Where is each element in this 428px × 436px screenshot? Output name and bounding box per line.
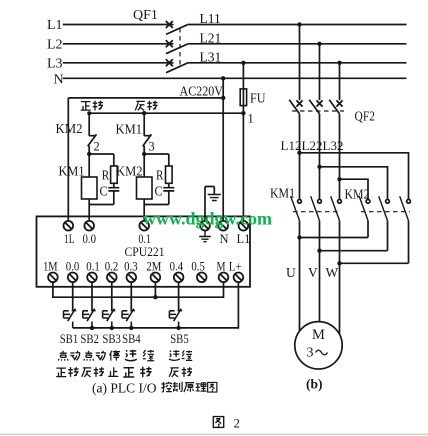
pushbutton SB2 <box>83 309 96 328</box>
contact KM1 NC interlock <box>116 113 155 154</box>
svg-text:V: V <box>308 265 318 280</box>
svg-text:1: 1 <box>248 112 254 126</box>
wire branch1 to output 0.0 <box>88 205 90 222</box>
svg-text:AC220V: AC220V <box>180 84 224 99</box>
bottom terminal labels <box>43 260 242 274</box>
junction 2M bus <box>153 295 157 299</box>
wire common bus 1M-2M-M <box>53 282 224 297</box>
wire L2 <box>63 43 174 45</box>
terminal 1L <box>64 221 75 246</box>
svg-text:N: N <box>54 72 64 87</box>
wire L3 <box>63 62 174 64</box>
node U V W <box>286 265 339 280</box>
wire left rail <box>67 98 69 221</box>
terminal 1M <box>48 273 58 283</box>
svg-text:U: U <box>286 265 296 280</box>
resistor R snubber2 <box>144 154 172 184</box>
junction wire 1 <box>241 111 245 115</box>
svg-text:3: 3 <box>307 346 314 361</box>
svg-text:CPU221: CPU221 <box>125 244 165 259</box>
junction AC220V/N <box>221 96 225 100</box>
label AC220V <box>180 84 224 99</box>
junction branch1 <box>87 152 91 156</box>
wire crossover L32 to KM2 left <box>340 179 369 199</box>
terminal I0.1 <box>87 273 97 283</box>
wire AC220V N-side <box>68 97 223 99</box>
terminal I0.3 <box>127 273 137 283</box>
svg-text:SB3: SB3 <box>102 331 121 346</box>
label wire 1 <box>248 112 254 126</box>
terminal I0.5 <box>197 273 207 283</box>
labels jog/stop/run row <box>58 350 192 361</box>
svg-text:0.0: 0.0 <box>66 260 80 274</box>
svg-text:L3: L3 <box>47 56 63 71</box>
breaker QF1 <box>133 8 188 73</box>
svg-text:0.3: 0.3 <box>124 260 138 274</box>
svg-text:C: C <box>155 185 163 200</box>
junction on N <box>221 76 225 80</box>
ground symbol PE <box>205 187 221 222</box>
junction U <box>297 235 301 239</box>
labels fwd/rev row <box>56 367 192 378</box>
junction L32 <box>337 177 341 181</box>
svg-text:SB2: SB2 <box>80 331 99 346</box>
svg-text:M: M <box>312 327 325 343</box>
junction on L31 fuse tap <box>241 61 245 65</box>
junction V <box>317 249 321 253</box>
svg-text:SB1: SB1 <box>60 331 78 346</box>
wire N vertical to PLC <box>222 78 224 221</box>
svg-text:(a) PLC I/O: (a) PLC I/O <box>92 381 157 396</box>
svg-text:1L: 1L <box>64 232 75 246</box>
terminal L1 <box>237 221 251 246</box>
terminal 0.0 out <box>83 221 97 246</box>
svg-text:KM1: KM1 <box>116 123 143 138</box>
fuse FU <box>240 63 265 107</box>
svg-text:2: 2 <box>234 416 241 431</box>
terminal I0.2 <box>107 273 117 283</box>
svg-text:(b): (b) <box>306 377 323 392</box>
wire N <box>63 77 407 79</box>
pushbutton SB3 <box>103 309 116 328</box>
junction on L31 <box>337 61 341 65</box>
junction branch2 <box>142 152 146 156</box>
svg-text:L1: L1 <box>237 232 251 246</box>
terminal I0.4 <box>174 273 184 283</box>
terminal M <box>219 273 229 283</box>
svg-text:0.0: 0.0 <box>83 232 97 246</box>
node L2 <box>47 37 63 52</box>
wire L11 <box>188 24 407 26</box>
svg-text:www.dgdgw.com: www.dgdgw.com <box>143 209 272 229</box>
capacitor C snubber1 <box>89 183 119 204</box>
junction on L11 <box>297 22 301 26</box>
wire QF2 to KM1 contacts <box>300 114 340 200</box>
pushbutton SB1 <box>64 309 77 328</box>
terminal N <box>218 221 228 246</box>
wire L+ to button bus <box>73 282 239 328</box>
PLC CPU221 box <box>37 216 251 286</box>
wire L21 <box>188 43 407 45</box>
wire KM2 right to W <box>340 221 409 264</box>
junction buttons bus <box>90 326 94 330</box>
svg-text:FU: FU <box>250 92 266 107</box>
svg-text:N: N <box>220 232 229 246</box>
resistor R snubber1 <box>89 154 117 184</box>
svg-text:L1: L1 <box>47 18 63 33</box>
svg-text:KM1: KM1 <box>59 165 85 180</box>
wire FU to L1 terminal <box>242 106 244 222</box>
terminal 2M <box>151 273 161 283</box>
caption (a) <box>92 381 217 396</box>
contactor KM2 main contacts <box>345 188 411 221</box>
svg-text:QF2: QF2 <box>355 110 376 125</box>
svg-text:W: W <box>326 265 339 280</box>
label forward <box>81 101 103 111</box>
svg-text:R: R <box>156 169 164 184</box>
svg-text:C: C <box>100 185 108 200</box>
capacitor C snubber2 <box>144 183 174 204</box>
junction L12 <box>297 151 301 155</box>
junction on L21 <box>317 42 321 46</box>
svg-text:1M: 1M <box>43 260 58 274</box>
pushbutton SB4 <box>122 309 135 328</box>
svg-text:3: 3 <box>149 140 155 154</box>
wire L31 <box>188 62 407 64</box>
node L21 <box>200 30 222 45</box>
node N <box>54 72 64 87</box>
svg-text:2: 2 <box>94 140 100 154</box>
wire input stubs <box>73 282 179 310</box>
terminal I0.0 <box>68 273 78 283</box>
wire crossover L22 to KM2 mid <box>320 167 388 200</box>
terminal PE <box>199 221 211 242</box>
svg-text:0.5: 0.5 <box>191 260 205 274</box>
svg-text:M: M <box>217 260 226 274</box>
wire L1 <box>63 24 174 26</box>
wire to motor <box>300 221 340 334</box>
watermark <box>143 209 272 229</box>
caption (b) <box>306 377 323 392</box>
coil KM1 <box>59 154 98 205</box>
svg-text:SB5: SB5 <box>170 331 189 346</box>
svg-text:0.4: 0.4 <box>170 260 184 274</box>
wire branch2 to output 0.1 <box>143 205 145 222</box>
terminal 0.1 out <box>138 221 151 246</box>
svg-text:L+: L+ <box>229 260 242 274</box>
terminal L+ <box>234 273 244 283</box>
node L3 <box>47 56 63 71</box>
motor M <box>295 322 342 369</box>
contact KM2 NC interlock <box>56 113 100 154</box>
svg-text:0.1: 0.1 <box>86 260 100 274</box>
svg-text:2M: 2M <box>146 260 161 274</box>
label CPU221 <box>125 244 165 259</box>
coil KM2 <box>116 154 152 205</box>
label reverse <box>135 101 157 111</box>
wire 1 horizontal <box>89 112 243 114</box>
wire KM2 left to U <box>300 221 369 238</box>
svg-text:L2: L2 <box>47 37 63 52</box>
svg-text:R: R <box>102 169 110 184</box>
wire KM2 mid to V <box>320 221 388 251</box>
svg-text:L12: L12 <box>281 138 302 153</box>
node L12 L22 L32 <box>281 138 344 153</box>
svg-text:SB4: SB4 <box>122 331 141 346</box>
svg-text:QF1: QF1 <box>133 8 158 23</box>
node L31 <box>200 49 222 64</box>
contactor KM1 main contacts <box>270 187 341 221</box>
pushbutton SB5 <box>169 309 182 328</box>
node L1 <box>47 18 63 33</box>
svg-text:KM2: KM2 <box>56 122 83 137</box>
wire crossover L12 to KM2 right <box>300 153 409 200</box>
bottom scan line <box>0 433 428 435</box>
breaker QF2 <box>289 25 375 125</box>
junction L22 <box>317 165 321 169</box>
junction W <box>337 261 341 265</box>
caption figure 2 <box>213 416 240 431</box>
node L11 <box>200 11 221 26</box>
labels SB1-SB5 <box>60 331 189 346</box>
junction wire1 branch2 <box>142 111 146 115</box>
svg-text:0.2: 0.2 <box>105 260 119 274</box>
